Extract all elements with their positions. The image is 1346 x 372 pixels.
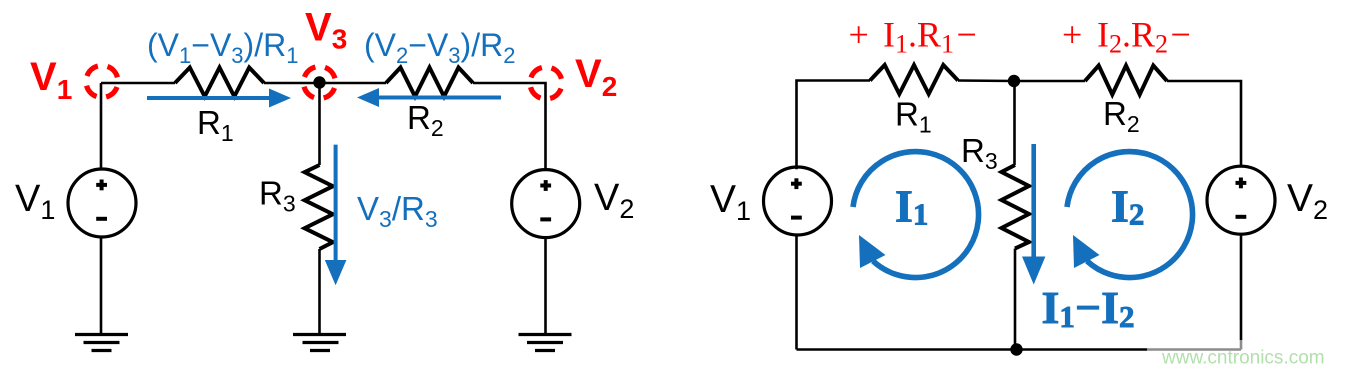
wire R2 to V2 branch (1167, 81, 1241, 167)
svg-text:V3: V3 (305, 6, 347, 55)
node V2 dashed circle (525, 62, 566, 103)
svg-text:+I1.R1−: +I1.R1− (849, 15, 977, 59)
wire node A to R3 mesh (1013, 81, 1016, 165)
resistor R2 (386, 68, 473, 97)
resistor R3 (305, 165, 333, 249)
svg-text:R1: R1 (895, 95, 932, 137)
resistor R1 (175, 68, 264, 97)
node B dot (1010, 343, 1022, 355)
wire V2 mesh to bottom (1240, 235, 1243, 350)
svg-text:R2: R2 (407, 99, 444, 141)
svg-text:I2: I2 (1111, 181, 1144, 232)
svg-text:V1: V1 (30, 55, 72, 105)
svg-text:I1−I2: I1−I2 (1042, 282, 1135, 334)
node V3 dot (313, 76, 325, 88)
wire source V1 to ground (100, 237, 103, 334)
current arrow (V1-V3)/R1 (147, 89, 291, 108)
wire R3 to ground (318, 249, 321, 334)
resistor R2 mesh (1085, 66, 1167, 95)
node V1 dashed circle (81, 61, 122, 102)
wire R1 to node V3 (264, 82, 320, 85)
svg-text:(V1−V3)/R1: (V1−V3)/R1 (147, 27, 298, 68)
wire node A to R2 (1014, 80, 1085, 83)
svg-text:R1: R1 (197, 104, 234, 146)
wire source V2 to ground (544, 238, 547, 334)
resistor R1 mesh (870, 65, 958, 94)
wire V1 mesh to bottom (795, 235, 798, 350)
node A dot (1008, 75, 1020, 87)
svg-text:V3/R3: V3/R3 (357, 190, 438, 232)
current arrow V3/R3 (325, 145, 347, 286)
svg-text:V2: V2 (575, 52, 617, 102)
wire V1 branch down (100, 83, 103, 169)
mesh current arrow I2 (1067, 152, 1193, 278)
svg-text:R2: R2 (1103, 95, 1140, 137)
ground center (293, 335, 346, 351)
wire V1 node to R1 (101, 82, 175, 85)
current arrow I1-I2 (1022, 144, 1045, 285)
voltage source V1 (68, 169, 136, 237)
wire R2 to V2 node and down to source (473, 83, 546, 170)
wire R1 to node A (958, 79, 1014, 82)
voltage source V2 mesh (1207, 166, 1275, 234)
svg-text:R3: R3 (259, 175, 296, 217)
wire R3 mesh to node B (1014, 249, 1017, 350)
svg-text:I1: I1 (895, 181, 928, 232)
svg-text:www.cntronics.com: www.cntronics.com (1161, 348, 1325, 369)
bottom wire (797, 348, 1242, 351)
wire node V3 down to R3 (318, 83, 321, 165)
resistor R3 mesh (1002, 165, 1030, 249)
svg-text:(V2−V3)/R2: (V2−V3)/R2 (364, 27, 515, 68)
voltage source V2 (512, 170, 580, 238)
svg-text:V2: V2 (594, 177, 634, 224)
svg-text:V1: V1 (15, 178, 55, 225)
voltage source V1 mesh (764, 167, 832, 235)
watermark overlay (1147, 340, 1346, 372)
svg-text:V1: V1 (710, 178, 751, 226)
mesh current arrow I1 (853, 152, 979, 278)
svg-text:R3: R3 (961, 132, 998, 174)
ground left (75, 335, 128, 351)
node V3 dashed circle (299, 62, 340, 103)
svg-text:+I2.R2−: +I2.R2− (1062, 15, 1191, 59)
wire node V3 to R2 (320, 82, 387, 85)
current arrow (V2-V3)/R2 (357, 88, 501, 107)
wire mesh top-left corner (797, 81, 871, 170)
svg-text:V2: V2 (1287, 177, 1328, 225)
ground right (519, 335, 572, 351)
